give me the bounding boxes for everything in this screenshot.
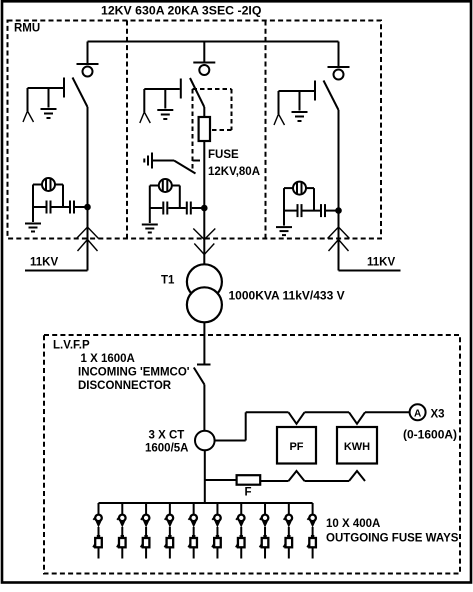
svg-text:DISCONNECTOR: DISCONNECTOR bbox=[78, 380, 172, 392]
svg-text:12KV,80A: 12KV,80A bbox=[208, 166, 260, 178]
svg-text:1000KVA 11kV/433 V: 1000KVA 11kV/433 V bbox=[229, 289, 345, 303]
svg-text:1600/5A: 1600/5A bbox=[145, 443, 188, 455]
svg-text:11KV: 11KV bbox=[30, 257, 58, 269]
svg-text:FUSE: FUSE bbox=[208, 149, 239, 161]
svg-text:RMU: RMU bbox=[14, 23, 40, 35]
svg-text:A: A bbox=[414, 409, 421, 420]
svg-text:X3: X3 bbox=[431, 409, 445, 421]
svg-text:1 X 1600A: 1 X 1600A bbox=[81, 353, 135, 365]
svg-text:3 X CT: 3 X CT bbox=[149, 430, 185, 442]
svg-text:(0-1600A): (0-1600A) bbox=[403, 428, 457, 442]
svg-text:T1: T1 bbox=[161, 275, 175, 287]
svg-text:12KV 630A 20KA 3SEC -2IQ: 12KV 630A 20KA 3SEC -2IQ bbox=[101, 4, 262, 18]
svg-text:OUTGOING FUSE WAYS: OUTGOING FUSE WAYS bbox=[326, 533, 459, 545]
svg-text:11KV: 11KV bbox=[367, 257, 395, 269]
svg-text:INCOMING 'EMMCO': INCOMING 'EMMCO' bbox=[78, 367, 190, 379]
svg-text:KWH: KWH bbox=[344, 441, 370, 453]
svg-text:F: F bbox=[245, 487, 252, 499]
svg-text:PF: PF bbox=[289, 441, 303, 453]
svg-text:10 X 400A: 10 X 400A bbox=[326, 518, 380, 530]
svg-text:L.V.F.P: L.V.F.P bbox=[53, 340, 90, 352]
